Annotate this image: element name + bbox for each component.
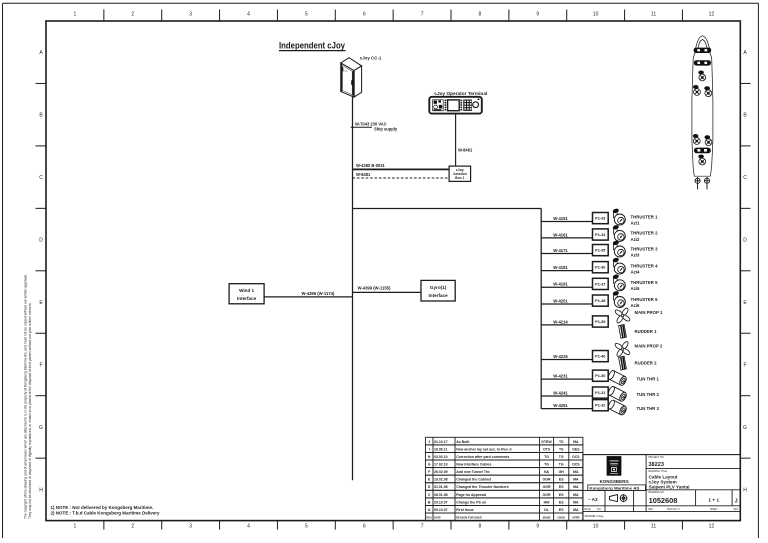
svg-text:1(1): 1(1) [597,509,601,511]
svg-text:10: 10 [593,12,599,18]
svg-text:TUN THR 1: TUN THR 1 [637,376,660,381]
wire W-4251 [541,403,592,409]
svg-text:1052608: 1052608 [649,496,678,505]
svg-text:REASON FOR ISSUE: REASON FOR ISSUE [456,516,482,520]
svg-text:PAGE: PAGE [584,508,591,511]
svg-text:– A3: – A3 [588,497,598,502]
svg-text:C: C [743,175,747,181]
tunnel thruster icon 2 [607,386,627,403]
svg-text:TG: TG [559,462,564,466]
svg-text:G: G [39,425,43,431]
svg-text:5: 5 [305,523,308,529]
svg-text:OTS: OTS [543,447,551,451]
column scale numbers bottom [74,521,715,530]
svg-text:7: 7 [421,12,424,18]
svg-text:PROJECT NO: PROJECT NO [648,456,664,459]
wire W-4191 [541,282,592,288]
svg-text:2: 2 [131,12,134,18]
wire W-4161 [541,232,592,238]
thruster icon 4 [612,257,625,274]
wire W-8461 terminal to junction box [456,114,473,167]
title Independent cJoy [279,40,346,50]
wire W-8481 dashed [353,172,450,178]
row scale letters left [36,50,47,493]
svg-text:26.02.09: 26.02.09 [434,470,448,474]
svg-text:Box 1: Box 1 [455,176,464,180]
svg-text:MA: MA [573,440,579,444]
svg-text:W-4380 B-0031: W-4380 B-0031 [356,163,386,168]
tunnel thruster icon 3 [607,399,627,416]
svg-text:C: C [39,175,43,181]
svg-text:W-4231: W-4231 [553,374,568,379]
svg-text:3: 3 [189,523,192,529]
ship tunnel thruster band 2 [694,60,711,65]
svg-text:2: 2 [131,523,134,529]
svg-text:TUN THR 3: TUN THR 3 [637,406,660,411]
svg-text:TG: TG [544,455,549,459]
svg-text:09.10.07: 09.10.07 [434,508,448,512]
svg-text:J: J [428,440,430,444]
svg-text:10: 10 [593,523,599,529]
ship outline top view [692,36,713,176]
svg-text:MA: MA [573,470,579,474]
wire W-7043 ship supply stub [351,121,398,131]
svg-text:31.01.08: 31.01.08 [434,485,448,489]
svg-text:17.02.10: 17.02.10 [434,462,448,466]
ship azimuth thruster bow single [698,71,705,81]
svg-text:ES: ES [559,493,564,497]
wire W-4380 trunk to junction box [353,163,450,169]
svg-text:HW: HW [544,500,551,504]
svg-text:MA: MA [573,485,579,489]
ship tunnel thruster band 3 [694,148,711,154]
svg-text:W-4181: W-4181 [553,265,568,270]
svg-text:4: 4 [247,12,250,18]
connector box P1-30 [593,370,609,381]
copyright text left margin [24,274,32,519]
svg-text:W-8481: W-8481 [356,172,371,177]
label THRUSTER 5 [631,280,659,291]
connector box P1-35 [593,245,609,256]
wire W-4214 [541,319,592,325]
svg-text:P1-30: P1-30 [595,373,605,378]
thruster icon 5 [612,274,625,291]
svg-text:THRUSTER 6: THRUSTER 6 [631,297,659,302]
svg-text:W-4171: W-4171 [553,248,568,253]
svg-text:Gyro(1): Gyro(1) [430,285,447,290]
svg-text:7: 7 [421,523,424,529]
connector box P1-38 [593,295,609,306]
svg-text:6: 6 [363,12,366,18]
title block frame [583,455,740,521]
svg-text:MA: MA [573,500,579,504]
svg-text:Azi4: Azi4 [631,270,640,275]
svg-text:TS: TS [559,447,564,451]
operator terminal panel [429,97,482,114]
svg-text:TG: TG [544,462,549,466]
svg-text:9: 9 [536,523,539,529]
svg-text:06.01.08: 06.01.08 [434,493,448,497]
outer border [3,2,759,4]
svg-text:29.10.07: 29.10.07 [434,500,448,504]
thruster icon 6 [612,290,625,307]
connector box P1-39 [593,316,609,327]
ship azimuth thruster stern single [698,155,705,165]
svg-text:Change the PS un: Change the PS un [456,500,486,504]
svg-text:THRUSTER 5: THRUSTER 5 [631,280,659,285]
svg-text:As Built: As Built [456,440,470,444]
svg-text:J: J [735,499,738,505]
wire main trunk from cabinet [352,97,354,480]
svg-text:REF.: REF. [648,509,653,511]
connector box P1-33 [593,213,609,224]
projection symbol [610,494,628,502]
svg-text:They may not be disclosed or d: They may not be disclosed or disposed or… [28,302,32,519]
svg-text:DWG NO. X: DWG NO. X [667,509,680,511]
svg-text:Ship supply: Ship supply [374,127,398,132]
svg-text:ES: ES [559,478,564,482]
project no field [646,456,740,469]
svg-text:W-4201: W-4201 [553,298,568,303]
row scale letters right [740,50,750,493]
revision table [425,437,583,520]
svg-text:Interface: Interface [237,296,257,301]
svg-text:MAIN PROP 1: MAIN PROP 1 [635,310,663,315]
svg-text:MA: MA [573,493,579,497]
svg-text:Correction after yard comments: Correction after yard comments [456,455,509,459]
svg-text:H: H [39,487,43,493]
svg-text:DATE: DATE [434,516,441,520]
svg-text:OGR: OGR [543,485,551,489]
svg-text:12: 12 [709,523,715,529]
svg-text:CHKD: CHKD [557,516,565,520]
svg-text:MAIN PROP 2: MAIN PROP 2 [635,343,663,348]
svg-text:W-4191: W-4191 [553,282,568,287]
thruster icon 2 [612,224,625,241]
svg-text:W-8461: W-8461 [458,147,473,152]
svg-text:W-4151: W-4151 [553,216,568,221]
wire W-4241 [541,390,592,396]
rudder 2 icon [619,356,627,370]
size / projection row [583,491,740,512]
svg-text:H: H [743,487,747,493]
svg-text:OCS: OCS [572,462,580,466]
svg-text:Kongsberg Maritime AS: Kongsberg Maritime AS [589,487,640,491]
svg-text:ES: ES [559,485,564,489]
svg-text:New Interface Cables: New Interface Cables [456,462,491,466]
svg-text:11: 11 [651,523,656,529]
label THRUSTER 4 [631,263,659,274]
svg-text:cJoy CC-1: cJoy CC-1 [360,56,382,61]
svg-text:D: D [743,238,747,244]
svg-text:5: 5 [305,12,308,18]
svg-text:P1-40: P1-40 [595,354,605,359]
main prop 1 icon [614,307,631,324]
connector box P1-40 [593,351,609,362]
wire W-4201 [541,298,592,304]
Kongsberg Maritime AS box [588,485,646,491]
svg-text:F: F [39,362,42,368]
svg-text:Saipem PLV Yantai: Saipem PLV Yantai [649,484,690,489]
svg-text:31.10.17: 31.10.17 [434,440,448,444]
svg-text:1052608-J.dwg: 1052608-J.dwg [584,514,604,518]
svg-text:1 + 1: 1 + 1 [708,497,719,503]
wire W-4396 [264,291,352,297]
svg-text:6: 6 [363,523,366,529]
svg-text:MA: MA [573,508,579,512]
svg-text:OCS: OCS [572,455,580,459]
svg-text:GH: GH [559,470,565,474]
svg-text:W-4241: W-4241 [553,390,568,395]
svg-text:THRUSTER 4: THRUSTER 4 [631,263,659,268]
label THRUSTER 1 [631,214,659,225]
connector box P1-37 [593,278,609,289]
ship azimuth thruster pair fwd [693,85,700,95]
svg-text:OES: OES [572,447,580,451]
wire feeder bus horizontal [353,208,542,210]
svg-text:Independent cJoy: Independent cJoy [279,40,345,50]
cabinet cJoy CC-1 (isometric) [341,58,362,97]
svg-text:P1-36: P1-36 [595,265,606,270]
svg-text:RUDDER 1: RUDDER 1 [635,329,658,334]
svg-text:OGR: OGR [543,478,551,482]
svg-text:03.03.10: 03.03.10 [434,455,448,459]
svg-text:THRUSTER 2: THRUSTER 2 [631,231,659,236]
svg-text:1) NOTE : Not delivered by Kon: 1) NOTE : Not delivered by Kongsberg Mar… [51,505,154,510]
svg-text:APPR: APPR [572,516,579,520]
svg-text:8: 8 [479,12,482,18]
svg-text:TS: TS [559,440,564,444]
svg-text:First Issue: First Issue [456,508,474,512]
svg-text:2) NOTE : T.b.d Cable Kongsber: 2) NOTE : T.b.d Cable Kongsberg Maritime… [51,510,161,515]
svg-text:I: I [429,447,430,451]
connector box P1-31 [593,387,609,398]
svg-text:G: G [743,425,747,431]
small field labels bottom-left [584,508,601,511]
svg-text:RUDDER 2: RUDDER 2 [635,361,658,366]
drawing number field [648,490,737,506]
wire W-4181 [541,265,592,271]
svg-text:W-4161: W-4161 [553,232,568,237]
svg-text:THRUSTER 3: THRUSTER 3 [631,246,659,251]
svg-text:P1-34: P1-34 [595,232,606,237]
svg-text:W-7043 230 VAC: W-7043 230 VAC [355,121,387,126]
main prop 2 icon [614,341,631,358]
svg-text:Azi6: Azi6 [631,303,640,308]
svg-text:3: 3 [189,12,192,18]
svg-text:W-4251: W-4251 [553,403,568,408]
svg-text:W-4399 (W-1155): W-4399 (W-1155) [358,286,391,291]
svg-text:c.J..: c.J.. [344,69,349,73]
svg-text:12: 12 [709,12,715,18]
svg-text:1: 1 [74,12,77,18]
svg-text:38223: 38223 [648,462,664,468]
svg-text:ES: ES [559,500,564,504]
svg-text:The copyright of this drawing: The copyright of this drawing and of all… [24,274,28,519]
connector box P1-34 [593,229,609,240]
svg-text:D: D [39,238,43,244]
wire W-4399 [353,286,422,293]
svg-text:P1-39: P1-39 [595,319,606,324]
svg-text:Wind 1: Wind 1 [239,288,254,293]
svg-text:DRAWING NO: DRAWING NO [648,491,664,494]
interface box Wind 1 [229,284,264,304]
interface box Gyro 1 [421,280,455,301]
svg-text:Add new Tunnel Thr.: Add new Tunnel Thr. [456,470,490,474]
wire W-4225 [541,354,592,360]
svg-text:OGR: OGR [543,493,551,497]
svg-text:W-4214: W-4214 [553,319,568,324]
svg-text:11: 11 [651,12,656,18]
tunnel thruster icon 1 [607,370,627,387]
svg-text:DTEW: DTEW [541,440,552,444]
ship stern propellers [695,177,710,190]
svg-text:Interface: Interface [429,293,449,298]
wire W-4171 [541,248,592,254]
svg-text:Azi2: Azi2 [631,237,640,242]
connector box P1-32 [593,400,609,411]
svg-text:ES: ES [559,508,564,512]
svg-text:SHEET: SHEET [710,509,718,511]
label THRUSTER 3 [631,246,659,257]
ship tunnel thruster band 1 [694,48,712,53]
svg-text:NA: NA [544,470,550,474]
svg-text:TG: TG [559,455,564,459]
ship azimuth thruster pair aft [693,134,700,144]
svg-text:P1-35: P1-35 [595,248,606,253]
svg-text:W-4396 (W-1174): W-4396 (W-1174) [302,291,335,296]
svg-text:Azi5: Azi5 [631,286,640,291]
connector box P1-36 [593,262,609,273]
svg-text:Changed the Thruster Numbers: Changed the Thruster Numbers [456,485,509,489]
svg-text:P1-32: P1-32 [595,403,606,408]
svg-text:REV.: REV. [734,509,740,511]
junction box cJoy Junction Box 1 [449,166,471,181]
bottom field labels [648,509,739,511]
svg-text:MA: MA [573,478,579,482]
svg-text:P1-33: P1-33 [595,216,606,221]
svg-text:16.06.11: 16.06.11 [434,447,447,451]
Kongsberg logo emblem [607,456,622,476]
svg-text:P1-31: P1-31 [595,390,606,395]
wire feeder bus vertical [540,209,542,409]
svg-text:P1-38: P1-38 [595,298,606,303]
wire W-4231 [541,374,592,380]
column scale numbers top [74,10,715,22]
svg-text:Changed the Cabinet: Changed the Cabinet [456,478,492,482]
thruster icon 1 [612,208,625,225]
svg-text:P1-37: P1-37 [595,281,605,286]
svg-text:DRAWING TITLE: DRAWING TITLE [648,470,667,473]
svg-text:Azi3: Azi3 [631,252,640,257]
svg-text:G: G [428,462,431,466]
svg-text:New anchor lay out acc. to Rev: New anchor lay out acc. to Rev. d [456,447,511,451]
svg-text:19.02.08: 19.02.08 [434,478,448,482]
rudder 1 icon [619,325,627,339]
svg-text:Page for Approval: Page for Approval [456,493,486,497]
svg-text:THRUSTER 1: THRUSTER 1 [631,214,659,219]
svg-text:1: 1 [74,523,77,529]
drawing title field [646,470,740,490]
label THRUSTER 6 [631,297,659,308]
svg-text:W-4225: W-4225 [553,354,568,359]
svg-text:MADE: MADE [543,516,551,520]
svg-text:cJoy Operator Terminal: cJoy Operator Terminal [434,91,487,96]
svg-text:4: 4 [247,523,250,529]
svg-text:F: F [743,362,746,368]
svg-text:8: 8 [479,523,482,529]
svg-text:Azi1: Azi1 [631,220,640,225]
svg-text:9: 9 [536,12,539,18]
svg-text:KONGSBERG: KONGSBERG [600,479,630,484]
label THRUSTER 2 [631,231,659,242]
svg-text:REV.: REV. [426,516,432,520]
wire W-4151 [541,216,592,222]
thruster icon 3 [612,240,625,257]
svg-text:TUN THR 2: TUN THR 2 [637,392,660,397]
